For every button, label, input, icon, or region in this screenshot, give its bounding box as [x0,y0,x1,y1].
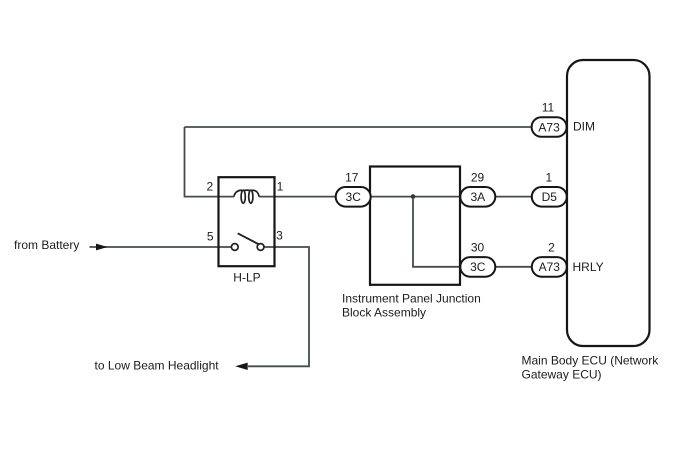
relay switch contact pin 3 [257,244,264,251]
svg-text:5: 5 [207,229,214,243]
connector 3A pin 29 [460,171,495,207]
svg-text:3C: 3C [346,190,362,204]
svg-text:11: 11 [542,101,555,115]
wire 3A pin 29 to D5 pin 1 [495,196,533,198]
connector A73 pin 2 [532,240,567,276]
svg-text:DIM: DIM [573,120,595,134]
arrow to low beam headlight [235,363,248,370]
svg-text:D5: D5 [542,190,558,204]
connector D5 pin 1 [532,171,567,207]
wire top run to connector A73 pin 11 [185,126,533,128]
svg-text:A73: A73 [539,260,561,274]
svg-text:H-LP: H-LP [233,271,260,285]
svg-text:Block Assembly: Block Assembly [342,305,426,319]
svg-text:1: 1 [277,180,284,194]
svg-text:1: 1 [545,171,552,185]
node junction dot [411,194,416,199]
relay switch contact pin 5 [231,244,238,251]
svg-text:to Low Beam Headlight: to Low Beam Headlight [95,359,220,373]
arrow on from-battery wire [96,244,108,251]
connector 3C pin 30 [460,240,495,276]
svg-text:A73: A73 [538,120,560,134]
junction block box [370,167,460,285]
wire 3C pin 30 to A73 pin 2 [495,266,533,268]
relay switch blade [238,233,259,244]
svg-text:29: 29 [471,171,485,185]
connector 3C pin 17 [336,171,371,207]
wire relay pin 1 to connector 3C pin 17 [259,196,337,198]
svg-text:Main Body ECU (Network: Main Body ECU (Network [522,354,660,368]
svg-text:2: 2 [206,180,213,194]
svg-text:2: 2 [548,240,555,254]
wire relay pin 3 to low beam headlight [248,247,309,366]
wire inside junction block 3C to 3A [370,196,461,198]
svg-text:from Battery: from Battery [14,238,79,252]
connector A73 pin 11 [532,101,567,137]
svg-text:3: 3 [276,229,283,243]
wire junction dot down to 3C pin 30 [413,197,461,267]
wire from battery to relay pin 5 [90,246,233,248]
wire relay pin 2 to node corner [185,127,235,197]
svg-text:3A: 3A [470,190,485,204]
svg-text:HRLY: HRLY [573,260,604,274]
svg-text:Gateway ECU): Gateway ECU) [522,368,602,382]
relay H-LP box [219,177,275,266]
svg-text:3C: 3C [470,260,486,274]
main body ECU box [567,60,650,346]
svg-text:17: 17 [345,171,359,185]
svg-text:30: 30 [471,240,485,254]
relay coil [234,190,259,203]
svg-text:Instrument Panel Junction: Instrument Panel Junction [342,291,481,305]
